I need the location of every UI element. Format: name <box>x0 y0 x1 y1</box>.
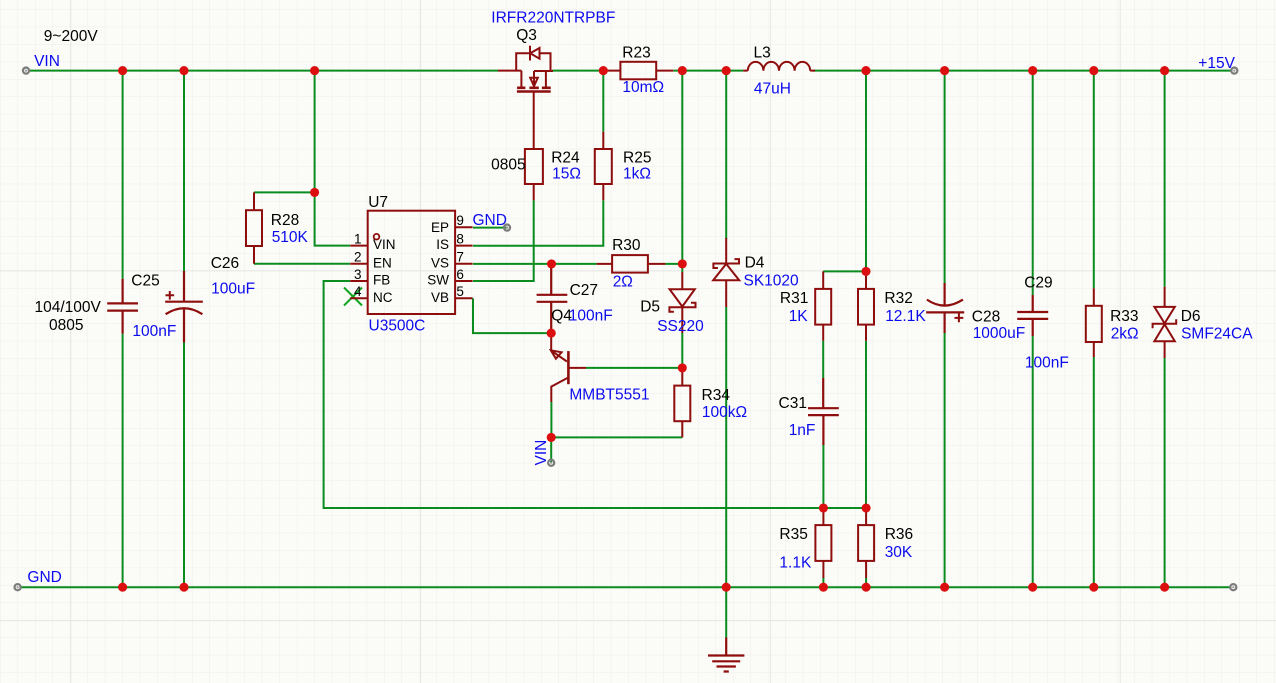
capacitor C26 electrolytic <box>165 271 203 343</box>
svg-text:Q3: Q3 <box>516 27 537 44</box>
svg-text:2kΩ: 2kΩ <box>1111 326 1139 343</box>
svg-text:100nF: 100nF <box>1025 355 1069 372</box>
svg-text:R24: R24 <box>551 150 580 167</box>
wire C29 bottom to GND rail <box>1032 336 1034 587</box>
svg-text:15Ω: 15Ω <box>552 166 581 183</box>
wire U7 pin6 SW up to R24 bottom <box>473 200 534 281</box>
no-connect cross on U7 pin4 <box>344 288 362 306</box>
diode D5 <box>681 272 683 333</box>
wire U7 pin7 VS to C27 junction <box>473 263 597 265</box>
svg-text:10mΩ: 10mΩ <box>622 79 664 96</box>
svg-text:R36: R36 <box>885 526 913 543</box>
resistor R35 <box>822 508 824 578</box>
wire rail to C28 <box>944 71 946 283</box>
wire GND bottom rail <box>21 586 1231 588</box>
svg-text:2: 2 <box>354 250 362 265</box>
svg-text:FB: FB <box>373 273 390 288</box>
wire D5 bottom to base junction <box>681 333 683 368</box>
terminal circles <box>15 68 1238 591</box>
wire junction to R34 bottom <box>551 436 682 438</box>
svg-text:R25: R25 <box>623 150 651 167</box>
wire collector down to VIN flag junction <box>550 402 552 437</box>
svg-text:R30: R30 <box>612 237 641 254</box>
svg-text:1nF: 1nF <box>789 422 816 439</box>
diode D4 <box>725 238 727 307</box>
resistor R36 <box>865 508 867 578</box>
transistor Q3 body diode loop <box>516 53 550 70</box>
svg-text:NC: NC <box>373 290 393 305</box>
TVS diode D6 <box>1164 287 1166 358</box>
Q3 gate line <box>517 90 551 92</box>
svg-text:VIN: VIN <box>533 440 550 466</box>
wire C28 bottom to GND rail <box>944 333 946 587</box>
Q3 arrow head <box>530 78 538 86</box>
svg-text:100nF: 100nF <box>132 323 176 340</box>
capacitor C28 electrolytic <box>926 283 964 333</box>
svg-text:VS: VS <box>431 255 449 270</box>
svg-text:MMBT5551: MMBT5551 <box>569 387 649 404</box>
svg-text:C28: C28 <box>972 308 1000 325</box>
wire rail to R33 <box>1093 71 1095 289</box>
Q3 body diode cathode bar <box>529 46 531 61</box>
svg-text:5: 5 <box>456 284 464 299</box>
svg-text:12.1K: 12.1K <box>885 308 926 325</box>
svg-text:R32: R32 <box>884 290 912 307</box>
wire rail to R28 junction <box>314 71 316 193</box>
svg-text:R35: R35 <box>779 526 807 543</box>
svg-text:L3: L3 <box>754 45 771 62</box>
wire junction down to U7 pin1 <box>315 192 350 245</box>
Q3 gate drop to R24 <box>533 93 535 150</box>
wire D4 bottom to GND rail <box>725 307 727 587</box>
IC U7 box <box>368 211 455 314</box>
wire top rail Q3 to R23 <box>552 70 603 72</box>
svg-text:1.1K: 1.1K <box>779 555 812 572</box>
svg-text:IRFR220NTRPBF: IRFR220NTRPBF <box>491 10 615 27</box>
wire U7 pin9 EP to GND flag <box>473 227 507 229</box>
svg-text:100uF: 100uF <box>211 281 255 298</box>
resistor R32 <box>865 271 867 340</box>
wire rail to D6 <box>1164 71 1166 287</box>
svg-text:+15V: +15V <box>1198 55 1235 72</box>
wire junction to R28 top <box>254 191 315 193</box>
resistor R31 <box>822 271 824 340</box>
capacitor C27 <box>537 264 568 333</box>
svg-text:EP: EP <box>431 220 449 235</box>
svg-text:R33: R33 <box>1110 308 1138 325</box>
svg-text:7: 7 <box>456 250 464 265</box>
svg-text:2Ω: 2Ω <box>613 274 633 291</box>
wire R31 top to R32 junction <box>823 270 866 272</box>
svg-text:C26: C26 <box>211 255 239 272</box>
svg-text:C27: C27 <box>570 282 598 299</box>
wire transistor base to R34 junction <box>586 367 682 369</box>
wire R36 bottom to GND rail <box>865 578 867 587</box>
svg-text:C25: C25 <box>131 273 159 290</box>
svg-text:VIN: VIN <box>34 53 60 70</box>
svg-text:R34: R34 <box>702 387 731 404</box>
wire rail to R25 top <box>602 71 604 132</box>
resistor R28 <box>253 192 255 263</box>
inductor L3 <box>743 62 815 71</box>
wire C26 column upper <box>183 71 185 273</box>
wire rail to R32 junction <box>865 71 867 272</box>
Q3 rail segment left (drain) <box>498 71 521 87</box>
svg-text:3: 3 <box>354 267 362 282</box>
svg-text:9~200V: 9~200V <box>44 28 99 45</box>
wire GND rail to earth symbol <box>725 587 727 637</box>
svg-text:6: 6 <box>456 267 464 282</box>
svg-text:47uH: 47uH <box>754 80 791 97</box>
wire R33 bottom to GND rail <box>1093 357 1095 587</box>
svg-text:VB: VB <box>431 290 449 305</box>
wire C31 bottom to FB junction <box>822 445 824 508</box>
svg-text:100nF: 100nF <box>569 307 613 324</box>
Q3 middle leg with arrow <box>533 71 535 87</box>
svg-text:8: 8 <box>456 231 464 246</box>
wire R30 right to junction <box>665 263 682 265</box>
svg-text:C29: C29 <box>1024 275 1052 292</box>
wire rail to D4 top <box>725 71 727 239</box>
svg-text:D6: D6 <box>1181 308 1201 325</box>
resistor R30 <box>597 263 666 265</box>
wire U7 pin8 IS to R25 bottom <box>473 200 603 245</box>
U7 left pin stubs <box>350 246 368 299</box>
svg-text:U7: U7 <box>368 194 388 211</box>
terminal center dots <box>17 70 1236 589</box>
svg-text:1: 1 <box>354 231 362 246</box>
Q3 body diode triangle <box>530 48 539 59</box>
wire junction down to VIN terminal <box>550 437 552 462</box>
svg-text:SS220: SS220 <box>657 318 704 335</box>
svg-text:D4: D4 <box>745 255 765 272</box>
Q3 rail segment right (source) <box>534 71 553 87</box>
svg-text:1000uF: 1000uF <box>973 325 1026 342</box>
U7 right pin stubs <box>455 227 473 298</box>
wire U7 pin3 FB loop down and right to R35 R36 <box>324 281 867 508</box>
resistor R25 <box>602 132 604 201</box>
Q3 contact bars <box>517 87 551 90</box>
svg-text:GND: GND <box>473 212 507 229</box>
svg-text:510K: 510K <box>272 229 309 246</box>
svg-text:U3500C: U3500C <box>369 318 426 335</box>
svg-text:IS: IS <box>436 237 449 252</box>
svg-text:SK1020: SK1020 <box>744 273 800 290</box>
svg-text:9: 9 <box>456 213 464 228</box>
capacitor C29 <box>1017 295 1048 336</box>
wire R28 bottom to U7 pin2 <box>254 263 350 265</box>
transistor Q4 MMBT5551 <box>550 333 552 350</box>
C26 plus sign <box>166 291 175 300</box>
wire C25 column upper <box>122 71 124 279</box>
svg-text:SMF24CA: SMF24CA <box>1181 326 1253 343</box>
wire R35 bottom to GND rail <box>822 578 824 587</box>
resistor R23 <box>603 70 673 72</box>
svg-text:VIN: VIN <box>373 237 396 252</box>
wire VIN top rail left <box>29 70 498 72</box>
svg-text:GND: GND <box>27 569 61 586</box>
wire rail to C29 <box>1032 71 1034 295</box>
svg-text:SW: SW <box>427 273 449 288</box>
svg-text:0805: 0805 <box>491 156 525 173</box>
C28 plus sign <box>955 314 964 323</box>
wire D6 bottom to GND rail <box>1164 358 1166 587</box>
svg-text:30K: 30K <box>885 544 913 561</box>
wire R32 bottom down to FB junction <box>865 341 867 508</box>
svg-text:R28: R28 <box>271 212 299 229</box>
wire U7 pin5 VB down to C27 bottom junction <box>473 298 551 333</box>
svg-text:EN: EN <box>373 255 392 270</box>
wire C25 column lower <box>122 334 124 588</box>
svg-text:0805: 0805 <box>49 317 83 334</box>
resistor R34 <box>681 368 683 438</box>
wire top rail L3 to +15V <box>813 70 1231 72</box>
svg-text:104/100V: 104/100V <box>35 299 102 316</box>
svg-text:100kΩ: 100kΩ <box>702 404 747 421</box>
svg-text:R31: R31 <box>780 290 808 307</box>
resistor R24 <box>525 149 543 184</box>
wire top rail R23 to L3 <box>673 70 743 72</box>
earth ground symbol <box>708 638 744 672</box>
wire rail down to R30 D5 junction <box>681 71 683 272</box>
wire R31 bottom to C31 top <box>822 341 824 378</box>
U7 pin1 indicator circle <box>374 234 380 240</box>
wire C26 column lower <box>183 343 185 588</box>
resistor R33 <box>1093 288 1095 357</box>
svg-text:1K: 1K <box>789 308 809 325</box>
capacitor C25 <box>107 279 138 334</box>
capacitor C31 <box>808 378 839 445</box>
svg-text:4: 4 <box>354 284 362 299</box>
svg-text:D5: D5 <box>640 299 660 316</box>
svg-text:C31: C31 <box>779 395 807 412</box>
svg-text:R23: R23 <box>622 44 650 61</box>
svg-text:1kΩ: 1kΩ <box>623 166 651 183</box>
